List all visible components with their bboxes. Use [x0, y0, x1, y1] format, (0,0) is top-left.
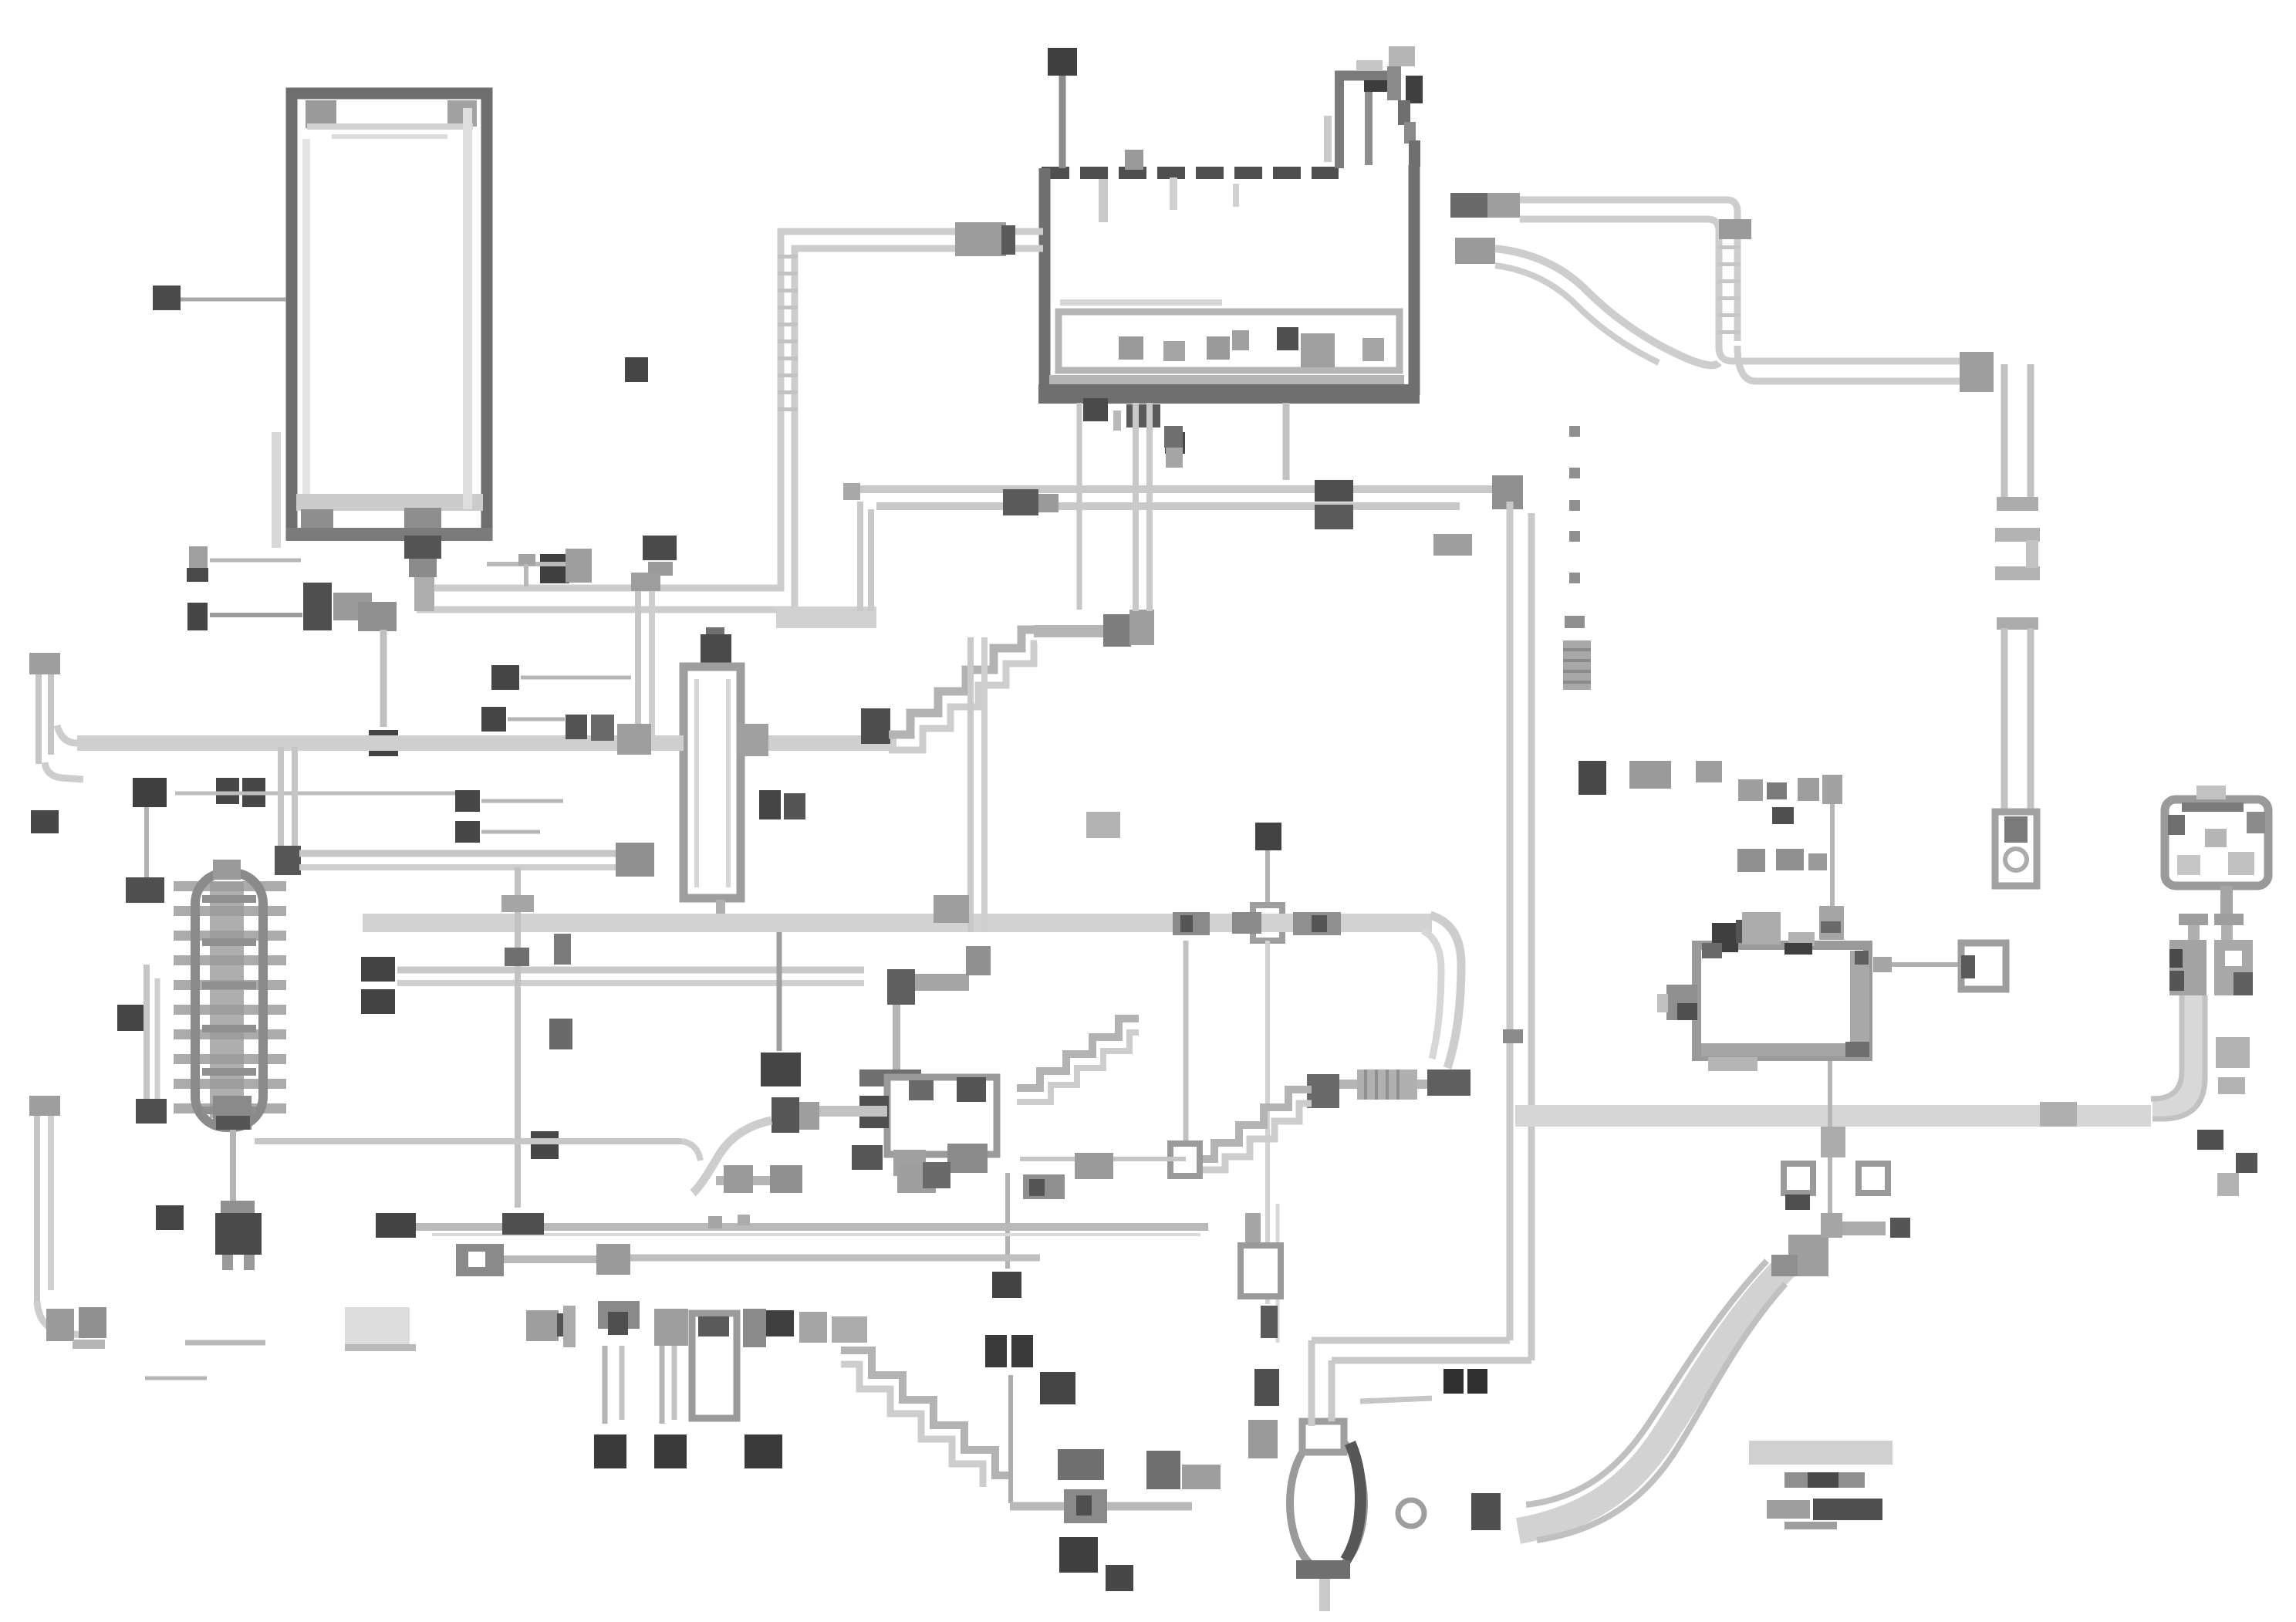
- hose C upper: [859, 485, 1514, 493]
- fitting at x1466: [1129, 610, 1154, 645]
- cross fitting: [456, 1244, 504, 1276]
- square ring small a: [1784, 1164, 1813, 1193]
- filler cap dark bar: [1406, 76, 1423, 103]
- return hose edge inner: [417, 248, 1043, 610]
- hose E corner hatch ticks: [1717, 245, 1741, 249]
- callout 20: [153, 286, 181, 310]
- callout 15 low: [1106, 1565, 1133, 1591]
- callout row d: [1808, 853, 1827, 870]
- callout 6: [491, 665, 519, 690]
- pump chain piece b: [1241, 1245, 1281, 1296]
- callout 14: [594, 1434, 626, 1468]
- callout 27 with leader: [777, 932, 782, 1051]
- G7 mid bottom: [255, 637, 1461, 1298]
- hose corner to pump top edge: [1312, 1337, 1510, 1344]
- pump block inner dark b: [957, 1077, 986, 1102]
- callout 7 tank bottom: [1165, 432, 1185, 454]
- tank right edge: [1409, 165, 1420, 395]
- motor bottom bits: [1708, 1057, 1757, 1071]
- small parts above motor: [1738, 779, 1763, 801]
- filler neck left edge: [1335, 76, 1344, 168]
- s2 staircase down left: [1187, 1090, 1312, 1159]
- gauge fitting bar right: [2214, 914, 2244, 925]
- cylinder clevis: [1995, 812, 2037, 886]
- band clamp fitting a: [1173, 912, 1210, 935]
- callout 7 mid: [481, 707, 506, 732]
- pump block inner dark a: [909, 1080, 934, 1100]
- vertical line x1310: [1008, 1375, 1013, 1503]
- leader line callout 20: [181, 298, 286, 302]
- fitting right a: [502, 1213, 544, 1235]
- hose E fitting dark at tank: [1450, 193, 1487, 218]
- tank bottom band: [1038, 384, 1420, 404]
- gauge inner blob: [2205, 829, 2227, 847]
- hose E lower corner right run top: [1719, 347, 1972, 361]
- vertical line item4: [380, 630, 387, 727]
- radiator outlet flange: [303, 583, 332, 630]
- tank internal fitting dark: [1277, 327, 1298, 350]
- motor left protrusion: [1666, 985, 1697, 1020]
- pump dark side: [1346, 1443, 1361, 1560]
- dark blob right of tee: [554, 934, 571, 965]
- cooler bottom fitting: [213, 1096, 252, 1130]
- left cap dark: [136, 1099, 167, 1124]
- motor body: [1697, 945, 1868, 1056]
- hatched piece fittings: [724, 1165, 753, 1193]
- cylinder segment B cap: [1997, 617, 2038, 630]
- radiator outlet fitting b: [358, 602, 397, 631]
- curve end horizontal piece: [1842, 1222, 1886, 1235]
- pump block left fitting: [859, 1096, 889, 1128]
- G3 return hoses: [187, 222, 1043, 756]
- leader 7 mid: [508, 718, 565, 721]
- z fitting dark left: [887, 969, 915, 1005]
- hose E bottom edge: [1520, 219, 1719, 347]
- callout 19: [216, 778, 239, 804]
- hatched piece below: [716, 1176, 801, 1185]
- left hook top cap: [29, 653, 60, 674]
- cylinder bottom fitting square: [1961, 943, 2006, 989]
- bits right of patch: [526, 1310, 559, 1341]
- motor small dark right: [1855, 951, 1869, 965]
- callout 29: [1040, 1372, 1075, 1404]
- cooler fins: [174, 881, 286, 891]
- leader 6: [521, 676, 631, 680]
- radiator top corner bolt left: [306, 100, 336, 128]
- small hatch at vertical pair: [1113, 411, 1121, 431]
- vertical line x671: [515, 867, 521, 1208]
- staircase s3 down right: [841, 1350, 1010, 1475]
- callout 26: [985, 1335, 1007, 1367]
- hose mid fitting dark pair: [1003, 489, 1038, 515]
- callout 15: [242, 778, 265, 807]
- vent fitting above tank top: [1125, 150, 1143, 170]
- return hose edge outer: [417, 231, 1043, 588]
- s2 dark fitting right: [1427, 1070, 1470, 1096]
- left bottom hook elbow: [37, 1301, 85, 1335]
- callout pair below tank left: [1164, 426, 1183, 448]
- fuel filter body: [684, 667, 741, 898]
- left bottom hook vertical: [34, 1111, 40, 1303]
- callout row c: [1776, 849, 1804, 870]
- filter inner line right: [726, 679, 731, 887]
- hose between callouts: [416, 1223, 1208, 1231]
- hose C small fitting left end: [843, 483, 860, 500]
- radiator lower tank band: [296, 494, 483, 511]
- curve end bit: [1771, 1255, 1798, 1276]
- fittings bottom of stud: [1629, 761, 1671, 789]
- small clamp above s1: [1086, 812, 1120, 838]
- tee piece on x671: [501, 895, 534, 912]
- tank internal fitting e: [1301, 333, 1335, 367]
- gray patch plate: [345, 1307, 410, 1346]
- gauge inner bar: [2182, 803, 2244, 812]
- hose E corner fitting: [1719, 219, 1751, 239]
- hose F fitting gray: [1455, 238, 1495, 264]
- hose y1955 to pump: [1010, 1502, 1192, 1511]
- motor top-left dark cluster: [1712, 923, 1738, 952]
- branch from suction band down: [278, 747, 284, 849]
- thin leader line left cluster: [175, 792, 463, 796]
- hose pair y1255: [397, 967, 864, 974]
- cylinder segment A left edge: [2001, 364, 2008, 502]
- tank internal fitting c: [1207, 336, 1230, 360]
- suction fitting d2: [591, 715, 614, 741]
- tee on thin line: [487, 562, 575, 566]
- fuel filter cap: [701, 634, 731, 668]
- gauge fitting stubs: [2188, 925, 2200, 945]
- gauge fitting bar left: [2179, 914, 2208, 925]
- cooler top neck: [213, 860, 241, 880]
- hatched hose to valve fittings: [1034, 625, 1108, 637]
- thin drain line: [185, 1340, 265, 1346]
- return drop tube hatch ticks: [778, 255, 798, 259]
- vertical pair to tank bottom: [1133, 403, 1139, 611]
- tank internal baffle rect: [1059, 312, 1400, 370]
- G1 radiator: [153, 93, 492, 548]
- cooler top fitting dark: [126, 877, 164, 903]
- filler cap seat dark: [1364, 80, 1392, 92]
- filler cap knob: [1389, 46, 1415, 66]
- hose E fitting gray: [1487, 193, 1520, 218]
- filler step a: [1398, 100, 1410, 125]
- dark fitting below band end: [2197, 1130, 2223, 1150]
- vent tube left of neck: [1324, 116, 1332, 162]
- hose E lower corner right run bottom: [1737, 346, 1972, 381]
- filler neck top bar: [1335, 71, 1392, 81]
- fittings left of s2 end: [1075, 1153, 1113, 1179]
- hook elbow piece: [79, 1307, 106, 1338]
- motor top gray fittings: [1742, 912, 1781, 944]
- gauge top tab: [2196, 786, 2226, 799]
- suction line left end elbow: [57, 725, 77, 743]
- fittings right of tube: [2216, 1037, 2250, 1068]
- motor top right connector: [1819, 906, 1844, 940]
- motor bottom band: [1701, 1043, 1865, 1056]
- callout 18 low: [1059, 1537, 1098, 1573]
- tank top edge dashed: [1042, 167, 1339, 179]
- callout 23 low: [1058, 1449, 1104, 1480]
- callout 13: [540, 554, 569, 583]
- figure text row1: [1749, 1441, 1893, 1465]
- motor bottom dark right: [1845, 1042, 1869, 1057]
- G9 labels: [1164, 426, 1910, 1238]
- cylinder clamp side: [2026, 540, 2038, 568]
- gray cluster: [799, 1312, 827, 1343]
- tank drain vertical: [1283, 403, 1290, 480]
- radiator bottom edge: [286, 528, 492, 541]
- hose F diagonal: [1495, 248, 1719, 365]
- figure text row3: [1767, 1500, 1810, 1519]
- callout 9 right: [2236, 1153, 2257, 1173]
- cylinder segment A cap: [1997, 497, 2038, 511]
- fitting end y1103: [616, 843, 654, 877]
- tank internal fitting a: [1119, 336, 1143, 360]
- leader line callout 10: [1059, 76, 1066, 168]
- radiator left side light strip: [272, 432, 281, 548]
- radiator top corner bolt right: [447, 100, 477, 127]
- filter outlet fitting: [739, 724, 768, 756]
- gauge down tube: [2152, 995, 2193, 1108]
- radiator drain stub: [414, 577, 434, 611]
- junction bridge below return corner: [776, 607, 876, 628]
- G6 cooler left: [29, 653, 1432, 1213]
- fitting right of tee: [566, 549, 592, 583]
- gauge housing: [2165, 799, 2268, 886]
- fitting on hose y1955: [1064, 1489, 1107, 1523]
- hose from cross right: [504, 1255, 599, 1263]
- hose D fitting pair: [1315, 505, 1353, 529]
- gray bits right of band: [2217, 1173, 2239, 1196]
- radiator inner left shadow: [302, 139, 310, 494]
- motor top dark bar: [1784, 943, 1812, 955]
- hose pair right y1103: [299, 850, 616, 857]
- callout 58: [156, 1205, 184, 1230]
- G4 filter and suction: [77, 403, 1722, 1360]
- filler cap body: [1387, 66, 1401, 100]
- filler step b: [1404, 122, 1416, 144]
- fitting left end: [596, 1244, 630, 1275]
- cooler drain line to valve: [230, 1130, 236, 1213]
- radiator outlet fitting a: [333, 593, 372, 620]
- pump body: [1290, 1435, 1364, 1571]
- staircase fitting dark: [861, 708, 890, 744]
- z upper fitting: [966, 946, 991, 975]
- thin vertical line right: [1830, 781, 1835, 911]
- filler step c: [1409, 140, 1420, 167]
- fitting right end hose C: [1492, 475, 1523, 509]
- tank internal stub: [1099, 179, 1108, 222]
- callout 23: [643, 536, 677, 560]
- small bits at hose start: [708, 1216, 722, 1228]
- fitting at pair-band junction: [934, 895, 969, 923]
- callout 30: [361, 957, 395, 982]
- square ring with callout above: [1255, 823, 1281, 850]
- tank internal top line: [1060, 299, 1222, 306]
- thin hatched link line: [1020, 1157, 1186, 1161]
- callout 24 left: [531, 1131, 559, 1159]
- figure text row4: [1784, 1522, 1837, 1529]
- s2 nipple hatched: [1357, 1070, 1417, 1100]
- suction hose right segment: [741, 735, 896, 751]
- pump block body: [887, 1077, 997, 1154]
- leader 21: [1005, 1173, 1010, 1269]
- hose from block to left: [818, 1106, 887, 1117]
- thin vertical from tank bottom: [1077, 403, 1082, 610]
- short hose pump right: [1360, 1398, 1432, 1401]
- big curve outer edge: [1537, 1284, 1785, 1540]
- small part above filter cap: [706, 627, 724, 652]
- callout row a: [1772, 807, 1794, 824]
- callout pair 12 8: [759, 790, 781, 819]
- gauge block left: [2169, 940, 2207, 995]
- pump block top bar: [859, 1070, 921, 1086]
- tee fitting with stems: [598, 1301, 640, 1329]
- tank internal fitting f: [1362, 338, 1384, 361]
- left hook top elbow to suction: [45, 762, 83, 779]
- hose C fitting left pair: [1315, 480, 1353, 502]
- s-curve hose: [693, 1120, 772, 1193]
- small fitting on vertical: [1503, 1029, 1523, 1043]
- clevis pin dark: [2004, 816, 2028, 843]
- tank internal squiggle: [1233, 184, 1239, 207]
- pump chain piece e: [1248, 1420, 1278, 1458]
- radiator drain elbow: [404, 536, 441, 559]
- leader 10 down: [144, 807, 149, 877]
- thin hose left y1479: [255, 1138, 682, 1144]
- cylinder clamp upper: [1995, 528, 2040, 542]
- callout 34 pair: [1443, 1369, 1464, 1394]
- motor stub right: [1873, 957, 1892, 972]
- callout 10 tank: [1048, 48, 1077, 76]
- dark blob below ring a: [1785, 1195, 1810, 1210]
- dark fitting at curve start: [1471, 1493, 1501, 1530]
- callout 8 mid: [455, 790, 480, 812]
- square ring small b: [1859, 1164, 1888, 1193]
- crossing fitting below band: [1821, 1127, 1845, 1157]
- callout 1: [189, 546, 208, 569]
- gauge block right: [2214, 940, 2253, 995]
- gauge dark corner left: [2168, 815, 2185, 835]
- callout 16: [117, 1005, 147, 1031]
- callout 7 right: [1890, 1218, 1910, 1238]
- hose E top edge: [1520, 200, 1737, 341]
- callout 2 tank area: [625, 357, 648, 382]
- filter bottom stub: [716, 900, 725, 915]
- radiator body (item 20): [292, 93, 487, 535]
- band clamp fitting c: [1293, 912, 1341, 935]
- long vertical hose pair right: [1507, 502, 1514, 1340]
- tank bottom fitting dark: [1083, 398, 1108, 421]
- figure text row2: [1784, 1472, 1808, 1488]
- callout 8 left: [31, 810, 59, 833]
- left bottom hook cap: [29, 1096, 60, 1116]
- z horizontal bar: [915, 974, 969, 991]
- suction hose left segment: [77, 735, 684, 751]
- pump block bottom bits: [893, 1150, 926, 1176]
- fitting at x1430: [1103, 614, 1131, 647]
- c ring clamp: [1398, 1500, 1424, 1526]
- curve end stub up: [1821, 1213, 1842, 1238]
- leader 8 mid: [481, 799, 563, 803]
- curve end elbow block: [1788, 1235, 1828, 1276]
- cooler core dark center: [210, 882, 244, 1118]
- s2 ring fitting: [1170, 1144, 1200, 1176]
- pump bottom cap: [1296, 1560, 1350, 1579]
- left hook top vertical: [35, 673, 42, 764]
- leader 5 mid: [481, 830, 540, 834]
- hose D lower: [876, 502, 1460, 510]
- tank internal fitting d: [1232, 330, 1249, 350]
- pump chain piece c: [1261, 1306, 1278, 1338]
- filter inner line left: [694, 679, 699, 887]
- callout 17: [654, 1434, 687, 1468]
- drop hose top fitting: [631, 573, 660, 591]
- hook end fitting: [46, 1309, 74, 1341]
- pump inlet fittings: [1146, 1451, 1180, 1489]
- callout 10 bottom: [376, 1213, 416, 1238]
- leader callout 2 lower: [210, 613, 302, 617]
- hook hatched tail: [73, 1340, 105, 1349]
- band hose y1195: [363, 914, 1432, 932]
- callout 21: [992, 1272, 1021, 1298]
- G2 fuel tank: [1038, 46, 1423, 421]
- branch elbow fitting: [275, 846, 301, 875]
- elbow down into pump neck: [1308, 1340, 1315, 1426]
- radiator bottom bolt right: [404, 508, 441, 529]
- thin line ring to pump chain: [1265, 941, 1270, 1304]
- callout 4: [369, 730, 398, 756]
- hose long lower y1630: [629, 1255, 1040, 1262]
- thin vertical top fitting: [1822, 775, 1842, 804]
- small separator cylinder: [692, 1313, 737, 1418]
- dark fitting right of cylinder: [743, 1309, 766, 1347]
- callout 5 mid: [455, 821, 480, 843]
- pump chain piece a: [1245, 1213, 1261, 1245]
- return hose fitting dark stub: [1001, 225, 1015, 255]
- tank internal stub2: [1170, 177, 1177, 210]
- suction fitting d1: [566, 715, 587, 739]
- callout row b: [1737, 849, 1765, 872]
- big curve hose body: [1518, 1265, 1787, 1531]
- short line bottom left: [145, 1377, 207, 1380]
- G8 pump bottom: [29, 941, 1893, 1611]
- callout 10 left column: [133, 778, 167, 807]
- dotted stud line: [1569, 426, 1580, 437]
- vertical z to block: [893, 1005, 900, 1073]
- filler neck right edge: [1365, 85, 1373, 165]
- cylinder segment A right edge: [2028, 364, 2034, 502]
- band clamp fitting b: [1232, 912, 1261, 934]
- radiator bottom bolt left: [301, 509, 333, 529]
- leader callout 1: [210, 559, 301, 563]
- motor right thick band: [1850, 951, 1869, 1053]
- drop hose pair to filter: [635, 590, 641, 739]
- vertical pair below hatched hose: [967, 637, 974, 932]
- cylinder segment B right edge: [2028, 628, 2034, 812]
- gauge dark corner right: [2247, 812, 2265, 833]
- gauge down tube edges: [2151, 995, 2182, 1099]
- s2 left fitting: [1307, 1074, 1339, 1108]
- fitting on hose dark: [772, 1097, 799, 1133]
- callout 2 lower: [187, 603, 208, 630]
- s2 hose y1405: [1308, 1080, 1429, 1089]
- callout 13 low: [361, 989, 395, 1014]
- band fitting mid: [2040, 1102, 2077, 1127]
- threaded nipple: [1563, 640, 1591, 690]
- fitting pair with stems: [654, 1309, 688, 1346]
- pump neck: [1302, 1421, 1344, 1452]
